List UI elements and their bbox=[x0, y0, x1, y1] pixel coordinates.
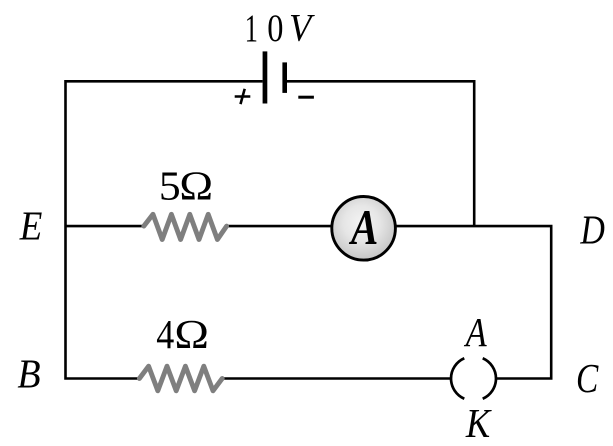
svg-text:A: A bbox=[463, 309, 487, 355]
svg-text:A: A bbox=[348, 199, 378, 255]
wire: middle row ammeter to right corner D, down to bottom row, left to switch bbox=[396, 226, 552, 378]
switch K (plug key) left arc bbox=[451, 358, 464, 398]
resistor R2 (4 ohm) zigzag bbox=[139, 366, 222, 391]
battery B1 plate: long positive plate bbox=[263, 51, 268, 103]
svg-text:5: 5 bbox=[159, 162, 181, 208]
svg-text:0: 0 bbox=[267, 7, 283, 50]
svg-text:1: 1 bbox=[245, 7, 258, 50]
wire: middle row left segment (E to resistor R1) bbox=[66, 225, 145, 228]
svg-text:E: E bbox=[19, 202, 43, 248]
svg-text:K: K bbox=[465, 400, 493, 446]
wire: top-left horizontal + left vertical + bottom-left segment bbox=[66, 81, 263, 378]
svg-text:V: V bbox=[289, 7, 315, 50]
wire: battery right to top-right corner, down to middle row (node junction) bbox=[287, 81, 474, 226]
wire: middle row between resistor R1 and ammeter bbox=[226, 225, 332, 228]
switch K (plug key) right arc bbox=[483, 358, 496, 398]
svg-text:Ω: Ω bbox=[174, 311, 209, 357]
ammeter A1 circle bbox=[332, 197, 396, 261]
wire: bottom row between resistor R2 and switch bbox=[222, 377, 452, 380]
battery minus sign bbox=[298, 96, 314, 99]
svg-text:4: 4 bbox=[156, 311, 174, 357]
svg-text:D: D bbox=[580, 206, 605, 252]
svg-text:B: B bbox=[17, 351, 40, 397]
battery B1 plate: short negative plate bbox=[282, 62, 287, 93]
battery plus sign bbox=[235, 89, 251, 104]
svg-text:Ω: Ω bbox=[179, 162, 213, 208]
svg-text:C: C bbox=[576, 355, 599, 401]
resistor R1 (5 ohm) zigzag bbox=[144, 214, 227, 239]
